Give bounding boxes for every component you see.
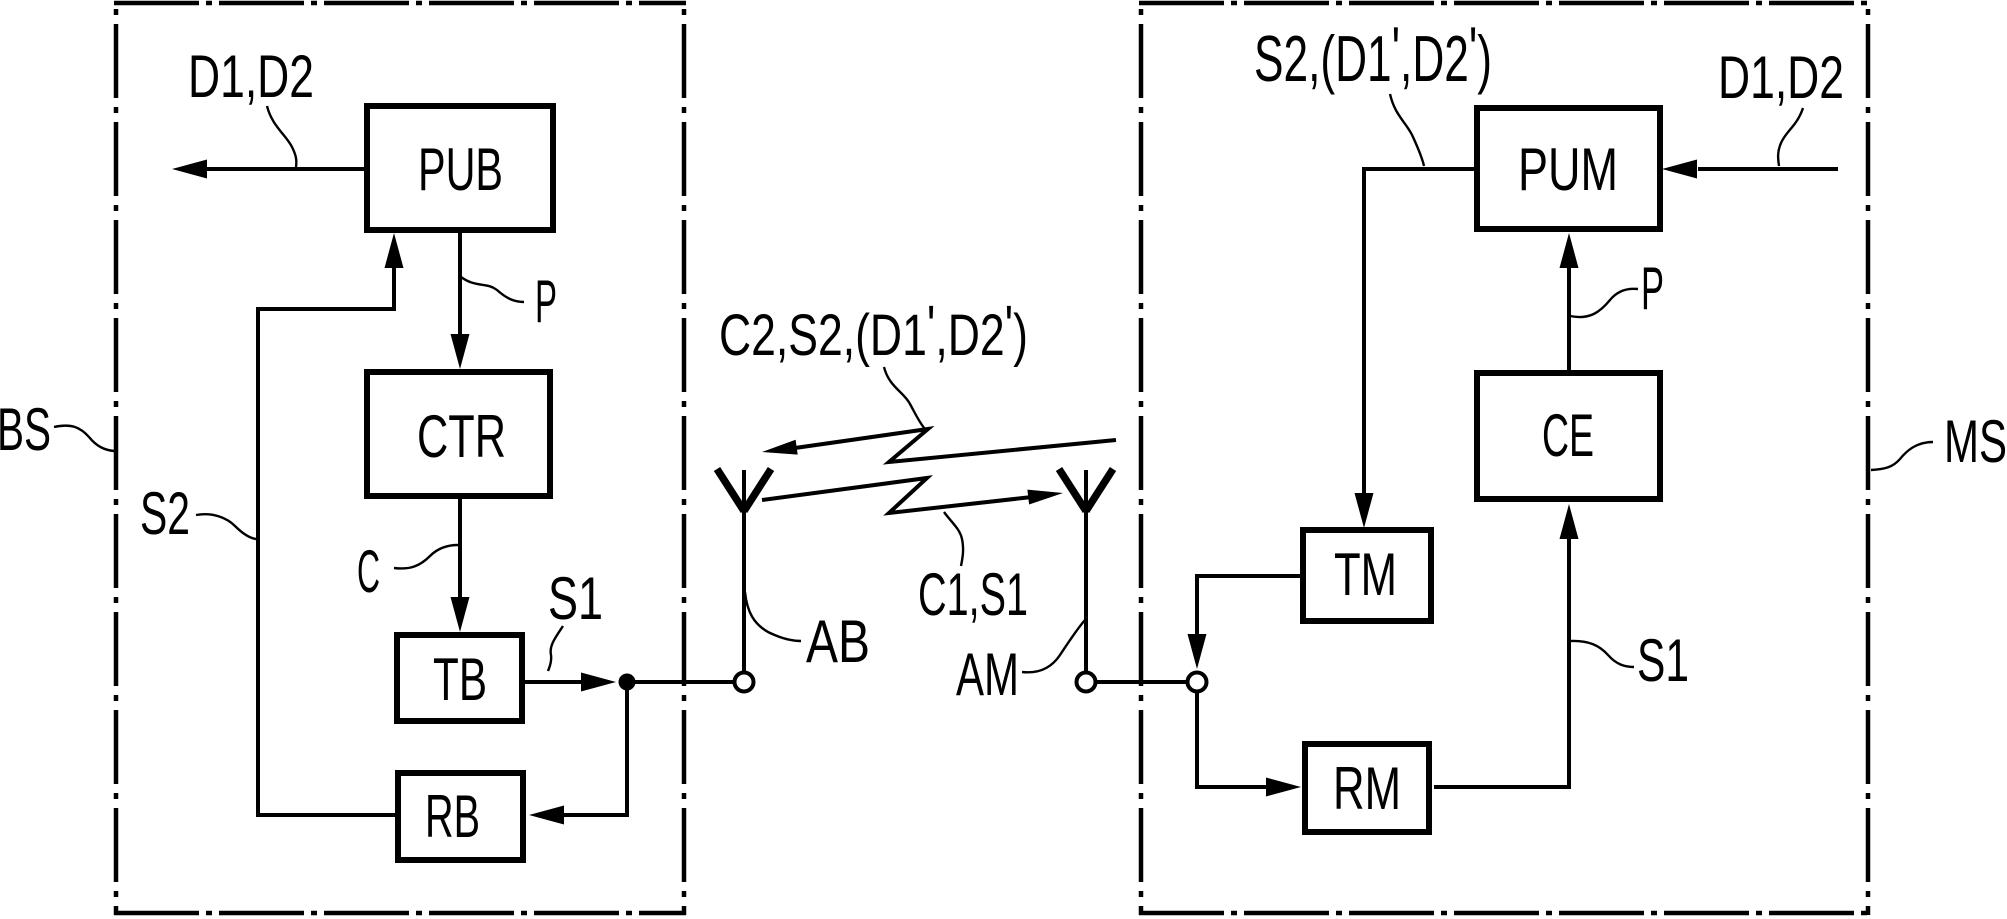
leader line S2 label to wire [1390, 94, 1424, 166]
svg-text:RB: RB [425, 783, 480, 850]
wire node to RM [1197, 691, 1268, 787]
leader line P right to wire [1570, 289, 1638, 317]
MS station boundary (dash-dot frame) [1139, 1, 1870, 915]
leader line MS [1871, 442, 1933, 470]
block CTR [367, 372, 550, 496]
wire junction down to RB [562, 682, 627, 815]
block TB [397, 635, 522, 721]
leader line S1 right to wire [1570, 641, 1634, 667]
block CE [1477, 373, 1660, 499]
wire S2 feedback RB to PUB [258, 266, 395, 815]
svg-text:S1: S1 [1637, 627, 1689, 694]
node circle (MS antenna junction) [1188, 673, 1207, 692]
svg-text:C: C [357, 538, 380, 605]
svg-text:MS: MS [1944, 408, 2007, 475]
wire TM output to node [1197, 576, 1302, 636]
junction dot node [619, 674, 636, 691]
block RM [1305, 744, 1429, 832]
svg-text:S2,(D1',D2'): S2,(D1',D2') [1254, 13, 1492, 95]
radio link arrow C1,S1 (BS to MS, zigzag) [762, 478, 1032, 513]
leader line C1 label to zigzag [944, 512, 963, 566]
svg-text:C1,S1: C1,S1 [918, 561, 1028, 628]
svg-text:S2: S2 [140, 480, 190, 547]
antenna AB feed circle [735, 673, 754, 692]
wire S2 feedback PUM to TM [1364, 169, 1474, 496]
svg-text:PUM: PUM [1518, 136, 1618, 203]
svg-text:RM: RM [1333, 755, 1401, 822]
antenna AM feed circle [1077, 673, 1096, 692]
leader line C to wire [394, 545, 458, 569]
leader line AB to antenna [745, 592, 801, 641]
svg-text:S1: S1 [548, 565, 603, 632]
leader line AM to antenna [1022, 620, 1085, 672]
svg-text:AM: AM [956, 641, 1019, 708]
wire S1 from RM to CE [1434, 537, 1569, 787]
svg-text:P: P [1641, 255, 1664, 322]
antenna AM [1059, 469, 1113, 672]
wire P from PUB down to CTR [458, 233, 462, 338]
wire D1,D2 input to PUM (right) [1698, 167, 1838, 171]
leader line S1 to wire [548, 626, 563, 671]
svg-text:CTR: CTR [417, 403, 506, 470]
svg-text:PUB: PUB [418, 136, 503, 203]
leader line BS [54, 426, 114, 451]
svg-text:TM: TM [1334, 541, 1397, 608]
block RB [398, 773, 523, 860]
BS station boundary (dash-dot frame) [114, 1, 686, 915]
wire S1 from TB to junction [525, 680, 585, 684]
leader line P to wire [461, 277, 524, 302]
svg-text:AB: AB [806, 608, 870, 675]
radio link arrow C2,S2 (MS to BS, zigzag) [795, 429, 1116, 462]
svg-text:P: P [535, 268, 557, 335]
leader line C2 label to zigzag [884, 367, 925, 429]
svg-text:BS: BS [0, 396, 51, 463]
block PUM [1477, 108, 1660, 229]
leader line D1,D2 to wire [267, 106, 296, 167]
block TM [1303, 530, 1431, 621]
svg-text:CE: CE [1542, 402, 1594, 469]
block PUB [367, 106, 553, 230]
wire D1,D2 output from PUB (left arrow) [205, 167, 364, 171]
svg-text:D1,D2: D1,D2 [188, 43, 314, 110]
wire antenna AM to node [1095, 680, 1188, 684]
svg-text:D1,D2: D1,D2 [1718, 44, 1844, 111]
wire C from CTR down to TB [458, 499, 462, 601]
wire junction to antenna AB [627, 680, 733, 684]
leader line D1,D2 right to wire [1778, 108, 1803, 166]
wire P from CE up to PUM [1567, 266, 1571, 370]
svg-text:TB: TB [433, 646, 487, 713]
antenna AB [717, 469, 771, 672]
svg-text:C2,S2,(D1',D2'): C2,S2,(D1',D2') [719, 294, 1028, 368]
leader line S2 to wire [196, 514, 256, 539]
